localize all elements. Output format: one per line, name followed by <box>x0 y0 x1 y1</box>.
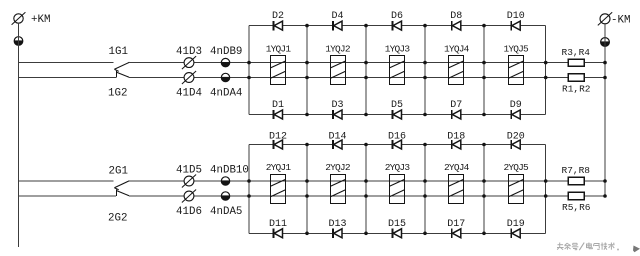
relay 2YQJ5 <box>503 162 529 204</box>
svg-text:R3,R4: R3,R4 <box>562 47 591 58</box>
wire row1 riser 5 <box>483 26 485 115</box>
connector contact 41D3 <box>176 46 202 69</box>
svg-text:1G1: 1G1 <box>109 46 128 58</box>
wire row1 lower rail left segment <box>19 77 116 79</box>
connector contact 41D5 <box>176 165 202 188</box>
relay 1YQJ2 <box>325 44 351 85</box>
svg-text:D14: D14 <box>328 131 346 142</box>
diode D6 <box>391 11 403 30</box>
relay 1YQJ5 <box>503 44 529 85</box>
diode D19 <box>507 219 525 238</box>
wire row2 riser 5 <box>483 145 485 234</box>
switch contact 1G1 <box>109 46 130 71</box>
diode D17 <box>447 219 465 238</box>
svg-text:41D4: 41D4 <box>176 87 202 99</box>
diode D8 <box>450 11 462 30</box>
svg-text:1YQJ4: 1YQJ4 <box>444 44 470 55</box>
terminal +KM <box>12 12 51 26</box>
svg-text:R1,R2: R1,R2 <box>562 84 591 95</box>
svg-text:D18: D18 <box>447 131 465 142</box>
svg-text:2YQJ2: 2YQJ2 <box>325 162 351 173</box>
connector pin 4nDB9 <box>210 46 242 67</box>
svg-text:2G2: 2G2 <box>108 213 127 225</box>
junction dots row2 <box>247 143 607 235</box>
relay 1YQJ4 <box>444 44 470 85</box>
svg-text:R7,R8: R7,R8 <box>562 165 591 176</box>
svg-text:D6: D6 <box>391 11 403 22</box>
svg-text:D3: D3 <box>331 100 343 111</box>
relay 2YQJ3 <box>385 162 411 204</box>
wire row1 riser 3 <box>365 26 367 115</box>
svg-text:R5,R6: R5,R6 <box>562 202 591 213</box>
diode D13 <box>328 219 346 238</box>
svg-text:1YQJ5: 1YQJ5 <box>503 44 529 55</box>
svg-text:D9: D9 <box>510 100 522 111</box>
relay 2YQJ4 <box>444 162 470 204</box>
wire row2 riser 4 <box>424 145 426 234</box>
wire row2 riser 2 <box>306 145 308 234</box>
connector pin below +KM <box>14 37 23 46</box>
svg-text:4nDA4: 4nDA4 <box>210 87 242 99</box>
wire row1 riser 2 <box>306 26 308 115</box>
wire row2 lower rail left segment <box>19 195 116 197</box>
diode D1 <box>272 100 284 119</box>
svg-text:D4: D4 <box>331 11 343 22</box>
svg-text:4nDB9: 4nDB9 <box>210 46 242 58</box>
relay 2YQJ2 <box>325 162 351 204</box>
connector pin 4nDB10 <box>210 165 249 186</box>
svg-text:D2: D2 <box>272 11 284 22</box>
svg-text:1G2: 1G2 <box>108 88 127 100</box>
diode D20 <box>507 131 525 149</box>
resistor R3,R4 <box>562 47 591 66</box>
diode D10 <box>507 11 525 30</box>
wire row2 lower rail right segment <box>129 195 605 197</box>
resistor R1,R2 <box>562 74 591 95</box>
svg-text:2YQJ5: 2YQJ5 <box>503 162 529 173</box>
switch contact 2G2 <box>108 190 129 225</box>
wire row1 lower rail right segment <box>129 77 605 79</box>
terminal -KM <box>598 12 631 26</box>
svg-text:1YQJ2: 1YQJ2 <box>325 44 351 55</box>
watermark 头条号/电气技术 <box>557 243 640 253</box>
svg-text:D8: D8 <box>450 11 462 22</box>
svg-text:D1: D1 <box>272 100 284 111</box>
relay 2YQJ1 <box>266 162 292 204</box>
diode D4 <box>331 11 343 30</box>
junction dots row1 <box>247 24 607 116</box>
wire row1 riser 1 <box>248 26 250 115</box>
diode D9 <box>510 100 522 119</box>
wire row2 top diode rail <box>249 144 546 146</box>
wire +KM vertical feed <box>18 23 20 247</box>
connector contact 41D4 <box>176 71 202 99</box>
svg-text:2YQJ1: 2YQJ1 <box>266 162 292 173</box>
svg-text:4nDB10: 4nDB10 <box>210 165 249 177</box>
switch contact 1G2 <box>108 71 129 99</box>
connector pin 4nDA4 <box>210 73 242 99</box>
wire row1 upper rail left segment <box>19 62 114 64</box>
diode D18 <box>447 131 465 149</box>
wire row2 riser 1 <box>248 145 250 234</box>
switch contact 2G1 <box>109 166 130 190</box>
svg-text:-KM: -KM <box>611 14 630 26</box>
diode D15 <box>388 219 406 238</box>
svg-text:1YQJ1: 1YQJ1 <box>266 44 292 55</box>
resistor R5,R6 <box>562 192 591 213</box>
svg-text:2YQJ4: 2YQJ4 <box>444 162 470 173</box>
wire -KM vertical feed <box>604 24 606 196</box>
diode D12 <box>269 131 287 149</box>
svg-text:D5: D5 <box>391 100 403 111</box>
diode D3 <box>331 100 343 119</box>
diode D11 <box>269 219 287 238</box>
wire row1 riser 4 <box>424 26 426 115</box>
diode D14 <box>328 131 346 149</box>
svg-text:D16: D16 <box>388 131 406 142</box>
relay 1YQJ1 <box>266 44 292 85</box>
wire row2 riser 6 <box>545 145 547 234</box>
connector pin below -KM <box>601 38 610 47</box>
svg-text:4nDA5: 4nDA5 <box>210 206 242 218</box>
svg-text:D17: D17 <box>447 219 465 230</box>
connector contact 41D6 <box>176 190 202 218</box>
svg-text:D7: D7 <box>450 100 462 111</box>
wire row2 bottom diode rail <box>249 232 546 234</box>
svg-text:D15: D15 <box>388 219 406 230</box>
svg-text:2G1: 2G1 <box>109 166 128 178</box>
svg-text:1YQJ3: 1YQJ3 <box>385 44 411 55</box>
svg-text:41D6: 41D6 <box>176 206 202 218</box>
svg-text:D20: D20 <box>507 131 525 142</box>
svg-text:+KM: +KM <box>31 14 50 26</box>
svg-text:D19: D19 <box>507 219 525 230</box>
svg-text:D10: D10 <box>507 11 525 22</box>
diode D16 <box>388 131 406 149</box>
svg-text:D12: D12 <box>269 131 287 142</box>
wire row1 bottom diode rail <box>249 114 546 116</box>
svg-text:D11: D11 <box>269 219 287 230</box>
wire row2 upper rail left segment <box>19 180 114 182</box>
svg-text:41D5: 41D5 <box>176 165 202 177</box>
svg-text:2YQJ3: 2YQJ3 <box>385 162 411 173</box>
wire row2 upper rail right segment <box>129 180 605 182</box>
diode D2 <box>272 11 284 30</box>
svg-text:41D3: 41D3 <box>176 46 202 58</box>
relay 1YQJ3 <box>385 44 411 85</box>
diode D7 <box>450 100 462 119</box>
diode D5 <box>391 100 403 119</box>
wire row2 riser 3 <box>365 145 367 234</box>
wire row1 riser 6 <box>545 26 547 115</box>
connector pin 4nDA5 <box>210 192 242 218</box>
wire row1 top diode rail <box>249 25 546 27</box>
resistor R7,R8 <box>562 165 591 184</box>
wire row1 upper rail right segment <box>129 62 605 64</box>
svg-text:D13: D13 <box>328 219 346 230</box>
